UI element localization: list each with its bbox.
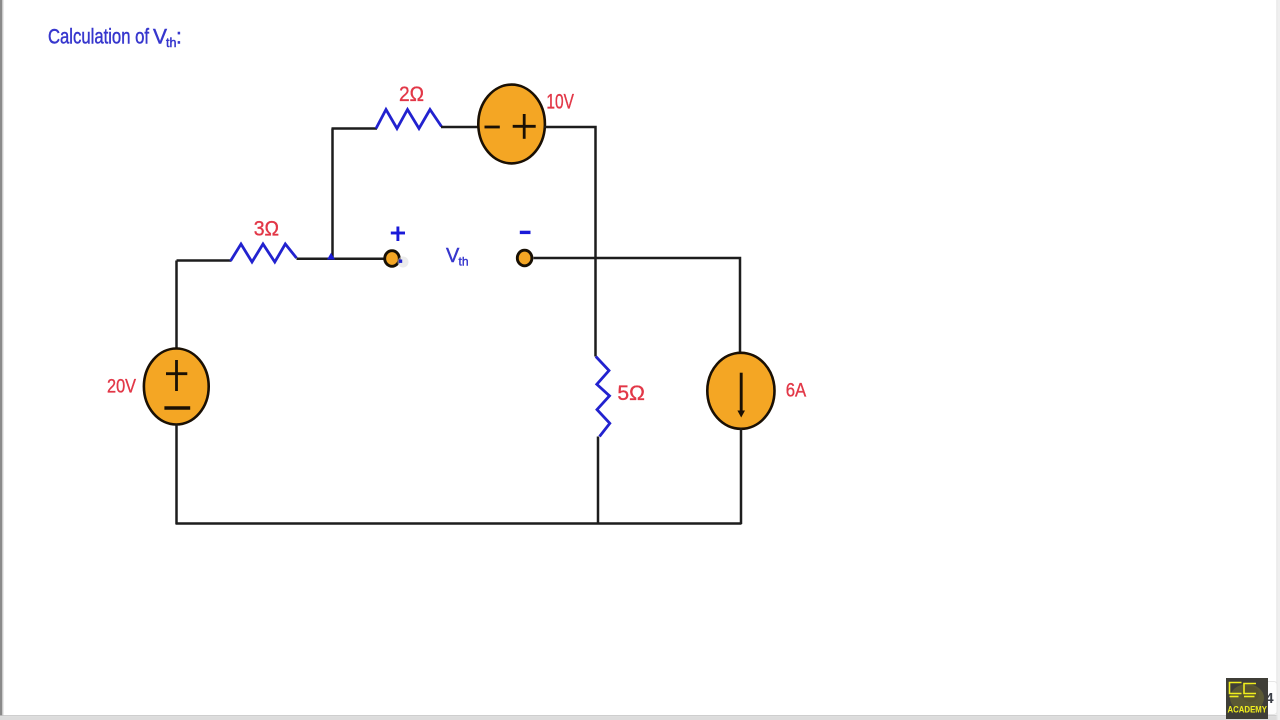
- cursor dot: [398, 257, 409, 268]
- svg-text:2Ω: 2Ω: [399, 83, 424, 106]
- node + terminal: [385, 251, 400, 267]
- right edge shading (decorative): [1277, 0, 1280, 720]
- wire left vertical upper (middle wire to 20V source): [175, 261, 178, 350]
- wire below 6A source to bottom wire: [740, 429, 743, 525]
- watermark logo (decorative): [1226, 678, 1268, 719]
- wire left vertical lower (20V source to bottom wire): [175, 425, 178, 525]
- label Vth: [446, 245, 469, 269]
- svg-text:10V: 10V: [546, 91, 574, 114]
- wire middle-left horizontal segment: [177, 259, 232, 262]
- voltage source V2 10V: [478, 85, 545, 164]
- node - terminal: [517, 250, 532, 266]
- junction marker (blue triangle) at node A: [327, 253, 335, 260]
- svg-text::: :: [176, 26, 182, 49]
- svg-text:5Ω: 5Ω: [617, 382, 645, 405]
- title text "Calculation of Vth:": [48, 26, 182, 51]
- wire bottom horizontal: [176, 522, 742, 525]
- svg-text:20V: 20V: [107, 377, 136, 398]
- resistor R1 2ohm: [376, 110, 442, 129]
- screen edge left bar (decorative): [0, 0, 2, 716]
- minus polarity mark above - terminal: [520, 231, 531, 234]
- resistor R3 5ohm: [596, 357, 610, 437]
- resistor R2 3ohm: [231, 244, 297, 262]
- svg-text:th: th: [166, 36, 176, 50]
- svg-text:V: V: [153, 26, 167, 49]
- current source I1 6A: [707, 353, 774, 429]
- wire from R2 to + terminal node: [297, 257, 386, 260]
- bottom scrollbar strip (decorative): [0, 715, 1280, 716]
- wire left vertical from top corner down to middle wire: [331, 129, 334, 259]
- voltage source V1 20V: [144, 349, 209, 425]
- svg-text:th: th: [459, 255, 469, 269]
- wire below R3 to bottom wire: [597, 437, 600, 525]
- svg-text:Calculation of: Calculation of: [48, 26, 149, 49]
- wire from - terminal right to corner and down to 6A source: [534, 258, 741, 354]
- wire from R1 to 10V source: [441, 126, 480, 129]
- svg-text:ACADEMY: ACADEMY: [1228, 705, 1268, 716]
- wire 10V source to top-right corner and down to 5ohm: [544, 127, 596, 357]
- wire top-left horizontal segment: [332, 127, 378, 130]
- svg-text:3Ω: 3Ω: [254, 218, 279, 241]
- plus polarity mark above + terminal: [391, 227, 405, 242]
- svg-text:6A: 6A: [786, 381, 807, 402]
- watermark annotation card (decorative): [1266, 682, 1278, 715]
